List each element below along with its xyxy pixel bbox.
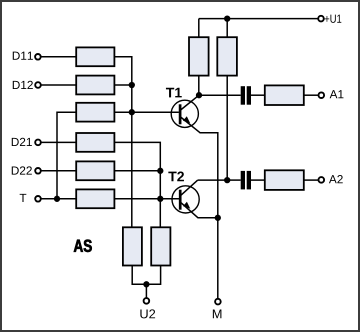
wire R3 left to T row [57, 112, 76, 199]
label A1 [330, 90, 344, 98]
terminal D22 [35, 168, 41, 174]
terminal A1 [319, 92, 325, 98]
label M [213, 309, 222, 318]
wire RA1 to A1 terminal [304, 94, 318, 96]
label T1 [166, 88, 182, 98]
label A2 [329, 175, 343, 183]
label +U1 [325, 15, 342, 23]
node T row T2 base [157, 196, 163, 202]
wire A1 node to C1 [199, 94, 241, 96]
label T [20, 194, 27, 202]
wire top supply rail [199, 18, 318, 20]
wire D22 input [42, 170, 77, 172]
capacitor C1 [241, 86, 251, 105]
wire T2 emitter to M [198, 217, 218, 219]
wire T input row to T2 base [42, 198, 180, 200]
wire C2 to RA2 [251, 179, 265, 181]
wire RA2 to A2 terminal [304, 179, 319, 181]
capacitor C2 [241, 171, 251, 190]
resistor RA2 (output A2) [265, 170, 304, 190]
resistor R3 [76, 103, 114, 122]
wire R5 right [114, 170, 160, 172]
wire R9 bottom [132, 266, 160, 285]
node emitter M [215, 215, 221, 221]
label D11 [13, 52, 33, 60]
label U2 [140, 309, 155, 318]
resistor R9 (emitter left) [123, 227, 142, 265]
transistor T2 [172, 180, 199, 218]
label D21 [12, 138, 32, 146]
node D22 join [157, 168, 163, 174]
wire T2 collector horizontal [198, 179, 228, 181]
node T row left [54, 196, 60, 202]
label AS [74, 240, 92, 252]
wire R7 top stem [198, 19, 200, 38]
wire R3 right to T1 base [114, 111, 178, 113]
wire R2 right [114, 84, 131, 86]
terminal M [215, 299, 221, 305]
wire U2 drop [145, 284, 147, 298]
terminal D12 [35, 82, 41, 88]
label T2 [168, 172, 184, 182]
wire A2 node to C2 [227, 179, 241, 181]
wire D11 input [42, 56, 77, 58]
resistor R8 (collector load T2) [217, 37, 237, 75]
node A2 [224, 177, 230, 183]
wire R7 bottom stem [198, 76, 200, 96]
resistor R7 (collector load T1) [189, 37, 209, 75]
wire C1 to RA1 [251, 94, 265, 96]
resistor R4 (D21) [76, 133, 114, 152]
node top rail R8 [224, 15, 230, 21]
terminal D21 [35, 140, 41, 146]
wire R8 top stem [226, 19, 228, 38]
wire R4 right down [114, 142, 160, 227]
terminal T [35, 196, 41, 202]
terminal +U1 [318, 16, 324, 22]
resistor R2 (D12) [76, 76, 114, 95]
terminal D11 [35, 54, 41, 60]
resistor R1 (D11) [76, 47, 114, 66]
wire T1 emitter to M line [200, 133, 218, 298]
terminal U2 [144, 298, 150, 304]
node T1 collector [196, 92, 202, 98]
wire R8 bottom to A2 node [226, 76, 228, 181]
resistor R5 (D22) [76, 161, 114, 180]
wire D12 input [42, 84, 77, 86]
terminal A2 [319, 177, 325, 183]
node bus-R2 [129, 82, 135, 88]
resistor RA1 (output A1) [265, 85, 304, 105]
label D12 [13, 81, 33, 89]
resistor R6 (T) [76, 189, 114, 208]
wire D21 input [42, 141, 77, 143]
node bus-R3 [129, 109, 135, 115]
transistor T1 [171, 95, 200, 132]
resistor R10 (emitter right) [151, 227, 170, 265]
wire R1 right to bus [114, 57, 131, 228]
label D22 [12, 166, 32, 174]
node U2 [143, 281, 149, 287]
